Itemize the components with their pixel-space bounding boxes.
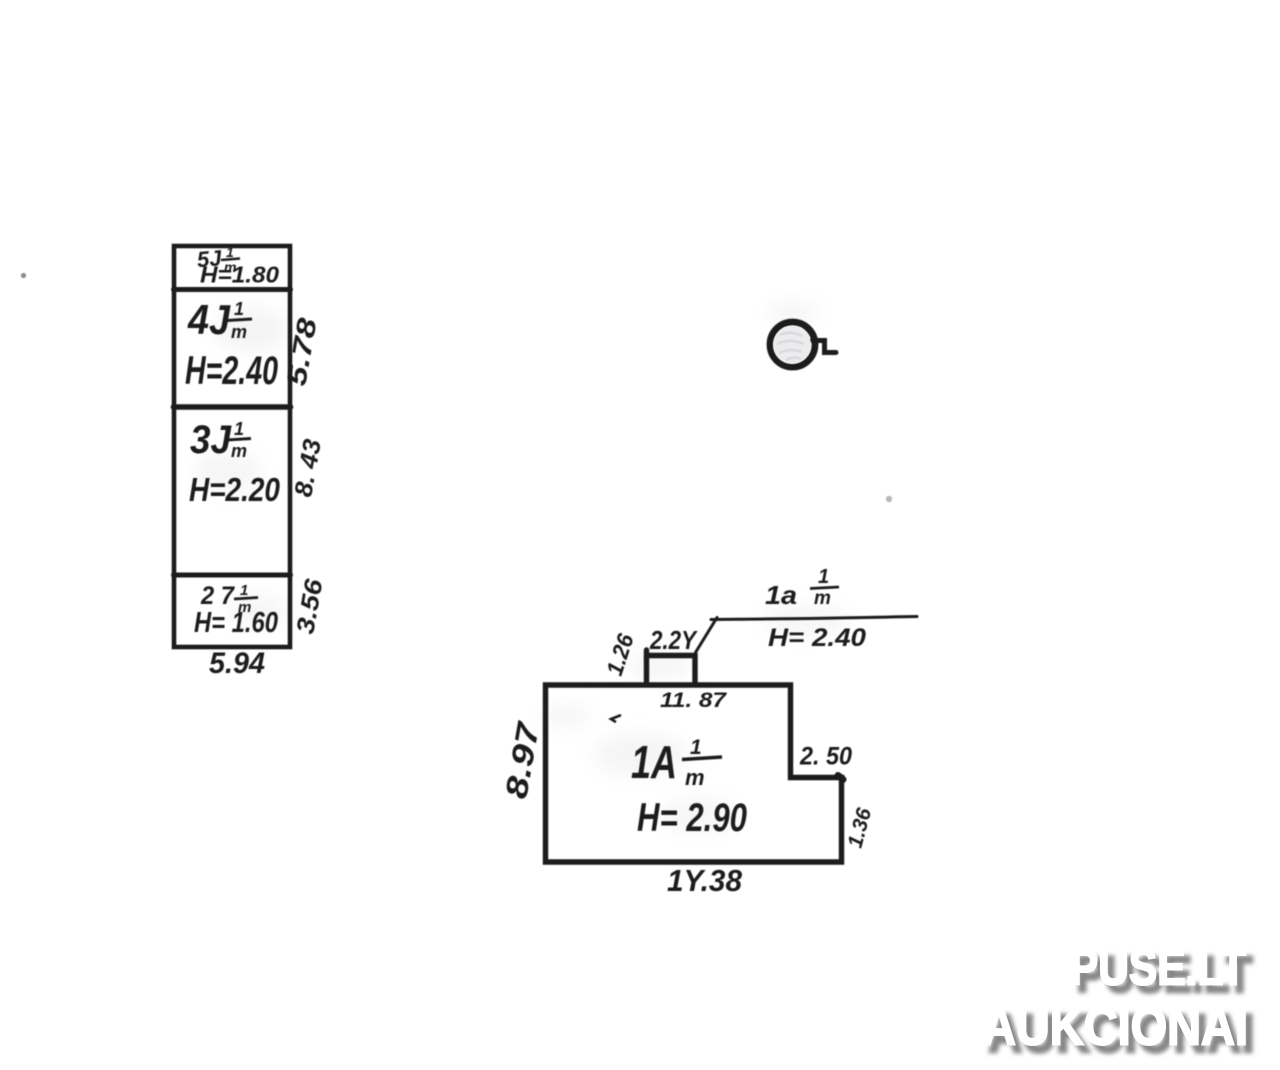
left outbuilding table outline bbox=[174, 246, 290, 647]
faint dot left margin bbox=[21, 273, 26, 278]
svg-text:2. 50: 2. 50 bbox=[799, 743, 852, 771]
svg-text:1a: 1a bbox=[765, 580, 797, 610]
leader line diagonal bbox=[696, 618, 718, 653]
interior scribble of septic circle bbox=[773, 326, 811, 364]
leader line horizontal bbox=[711, 617, 917, 620]
svg-text:H= 2.40: H= 2.40 bbox=[768, 624, 866, 652]
divider line 1 bbox=[174, 287, 291, 292]
svg-text:m: m bbox=[685, 765, 705, 790]
svg-text:1: 1 bbox=[818, 566, 829, 588]
paper mottling bbox=[194, 303, 850, 833]
svg-text:1: 1 bbox=[690, 736, 702, 759]
stray pen tick bbox=[611, 716, 620, 722]
svg-text:3J: 3J bbox=[190, 418, 232, 462]
svg-text:1: 1 bbox=[226, 244, 234, 260]
svg-text:1: 1 bbox=[234, 419, 244, 439]
svg-text:2.2Y: 2.2Y bbox=[649, 625, 698, 655]
faint smudge near step bbox=[886, 496, 892, 502]
main building outline bbox=[546, 685, 842, 862]
svg-text:11. 87: 11. 87 bbox=[660, 689, 728, 712]
svg-text:1: 1 bbox=[234, 299, 244, 319]
watermark PUSE.LT shadow bbox=[989, 946, 1255, 1064]
divider line 2 bbox=[174, 404, 291, 410]
svg-text:1Y.38: 1Y.38 bbox=[667, 863, 743, 898]
svg-text:H=1.80: H=1.80 bbox=[200, 262, 279, 288]
svg-text:m: m bbox=[231, 322, 247, 342]
divider line 3 bbox=[174, 573, 291, 578]
svg-text:1A: 1A bbox=[631, 736, 677, 788]
svg-text:1: 1 bbox=[240, 582, 248, 599]
svg-text:H=2.20: H=2.20 bbox=[189, 471, 281, 508]
porch outline bbox=[647, 650, 696, 683]
svg-text:AUKCIONAI: AUKCIONAI bbox=[982, 997, 1248, 1057]
svg-text:PUSE.LT: PUSE.LT bbox=[1070, 939, 1246, 996]
watermark PUSE.LT bbox=[982, 939, 1248, 1057]
svg-text:H= 1.60: H= 1.60 bbox=[194, 607, 278, 639]
svg-text:m: m bbox=[231, 441, 247, 461]
svg-text:5.94: 5.94 bbox=[209, 647, 265, 680]
svg-text:H= 2.90: H= 2.90 bbox=[637, 796, 747, 840]
svg-text:4J: 4J bbox=[187, 296, 231, 343]
svg-text:2 7: 2 7 bbox=[200, 582, 235, 610]
septic circle bbox=[770, 322, 815, 367]
step corner emphasis bbox=[838, 776, 843, 780]
svg-text:H=2.40: H=2.40 bbox=[185, 349, 278, 393]
septic hook bbox=[812, 341, 836, 353]
svg-text:m: m bbox=[814, 588, 831, 609]
